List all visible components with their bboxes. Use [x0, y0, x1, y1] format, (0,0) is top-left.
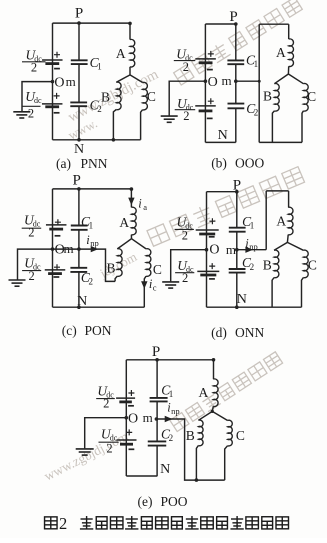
svg-text:np: np [171, 406, 180, 416]
svg-text:1: 1 [254, 59, 259, 69]
node m (c) [77, 247, 81, 251]
wire A to neutral (a) [129, 67, 131, 75]
svg-text:A: A [276, 213, 286, 228]
svg-text:N: N [77, 294, 87, 309]
inductor B (b) [274, 84, 279, 112]
wire capacitor column (e) [156, 360, 158, 476]
svg-text:1: 1 [250, 221, 255, 231]
node P-cap junction (d) [235, 190, 239, 194]
node m (e) [155, 417, 159, 421]
wire N rail (e) [126, 475, 157, 477]
wire load left edge (b) [258, 24, 260, 142]
watermark chinese lower right [169, 351, 283, 432]
node P-cap junction (e) [155, 358, 159, 362]
svg-text:P: P [233, 177, 241, 193]
node O (e) [125, 416, 129, 420]
svg-text:2: 2 [97, 104, 102, 114]
svg-text:dc: dc [34, 96, 42, 105]
inductor A (e) [213, 379, 218, 407]
wire C to N rail (c) [144, 276, 146, 307]
polarity + lower battery (e) [126, 429, 132, 435]
capacitor C2 (a) [70, 101, 87, 103]
wire B to N rail (a) [113, 110, 116, 140]
wire P rail (d) [207, 191, 237, 193]
node N-cap junction (d) [235, 305, 239, 309]
svg-text:2: 2 [254, 107, 258, 117]
wire B to bottom (e) [196, 446, 198, 481]
svg-text:B: B [186, 428, 195, 443]
wire neutral to C (c) [132, 239, 147, 249]
polarity + lower battery (a) [54, 93, 60, 99]
wire capacitor column (c) [78, 189, 80, 307]
inductor C (b) [303, 84, 308, 112]
wire P to phase A (e) [213, 360, 215, 379]
wire N rail (c) [53, 306, 145, 308]
node O (b) [204, 79, 208, 83]
polarity - lower battery (a) [54, 112, 60, 114]
inductor C (a) [143, 82, 148, 110]
svg-text:C: C [153, 262, 162, 277]
battery Udc/2 lower (b) [195, 105, 216, 107]
battery Udc/2 lower (e) [117, 439, 137, 441]
wire neutral to C (b) [288, 74, 303, 84]
svg-text:PNN: PNN [81, 156, 108, 171]
svg-text:A: A [119, 215, 129, 230]
wire C to bottom (e) [225, 446, 228, 480]
wire P rail (c) [53, 188, 132, 190]
current arrow i_np (c) [91, 247, 97, 252]
wire load top edge (b) [259, 23, 289, 25]
current arrow i_np (e) [165, 416, 171, 421]
svg-text:2: 2 [103, 396, 109, 410]
node m (b) [234, 79, 238, 83]
wire left rail (c) [52, 189, 54, 307]
svg-text:ONN: ONN [235, 325, 264, 340]
wire P rail (b) [205, 23, 235, 25]
wire P rail (a) [53, 22, 131, 24]
svg-text:1: 1 [89, 220, 94, 230]
svg-text:m: m [143, 410, 153, 425]
polarity - upper battery (c) [55, 235, 61, 237]
ground (a) [13, 111, 30, 113]
svg-text:N: N [237, 292, 247, 307]
wire top to phase A (b) [288, 24, 290, 39]
polarity - upper battery (d) [209, 236, 215, 238]
wire A to neutral (c) [130, 235, 132, 239]
wire O to ground (d) [171, 250, 207, 282]
svg-text:C: C [147, 89, 156, 104]
svg-text:POO: POO [161, 494, 188, 509]
watermark chinese middle [147, 166, 305, 247]
svg-text:O: O [208, 75, 218, 90]
svg-text:(a): (a) [56, 156, 71, 171]
polarity - upper battery (e) [128, 405, 134, 407]
wire N rail (d) [207, 306, 302, 308]
svg-text:P: P [73, 173, 81, 189]
battery Udc/2 lower (c) [45, 269, 66, 271]
wire neutral to C (e) [212, 411, 227, 420]
inductor A (b) [289, 39, 294, 67]
polarity - lower battery (e) [129, 448, 135, 450]
wire C to N rail (d) [302, 278, 304, 308]
wire capacitor column (d) [236, 192, 238, 308]
svg-text:B: B [263, 258, 272, 273]
polarity + upper battery (a) [54, 52, 60, 58]
svg-text:1: 1 [169, 389, 174, 399]
capacitor C1 (b) [227, 59, 244, 61]
inductor C (c) [146, 249, 151, 277]
wire B to bottom (b) [272, 111, 274, 142]
ground (e) [76, 448, 94, 450]
battery Udc/2 upper (b) [195, 58, 216, 60]
svg-text:2: 2 [28, 226, 34, 240]
battery Udc/2 upper (e) [116, 397, 135, 399]
svg-text:P: P [229, 9, 237, 25]
node m-load junction (b) [258, 80, 261, 83]
inductor B (d) [274, 250, 279, 278]
capacitor C2 (c) [70, 267, 87, 269]
wire O to ground (a) [22, 82, 53, 112]
node N-cap junction (a) [77, 138, 81, 142]
svg-text:a: a [143, 202, 147, 212]
svg-text:(d): (d) [211, 325, 227, 340]
current arrow i_c (c) [142, 282, 147, 288]
wire load top edge (d) [266, 190, 288, 192]
capacitor C2 (b) [228, 103, 245, 105]
svg-text:B: B [263, 89, 272, 104]
node N-B junction (a) [112, 138, 116, 142]
wire m to load (d) [237, 249, 266, 251]
wire capacitor column (a) [78, 23, 80, 140]
svg-text:m: m [66, 74, 76, 89]
inductor B (e) [198, 420, 203, 446]
polarity + upper battery (b) [208, 51, 214, 57]
wire left rail (d) [206, 192, 208, 308]
svg-text:(b): (b) [211, 156, 227, 171]
svg-text:A: A [276, 45, 286, 60]
capacitor C2 (e) [148, 440, 167, 442]
svg-text:2: 2 [182, 271, 188, 285]
wire neutral to B (e) [198, 411, 212, 420]
svg-text:N: N [74, 142, 84, 157]
svg-text:2: 2 [106, 441, 112, 455]
svg-text:P: P [152, 344, 160, 360]
node O (d) [205, 248, 209, 252]
svg-text:A: A [199, 385, 209, 400]
watermark www.zgbjdj.com lower left [42, 428, 131, 483]
battery Udc/2 upper (a) [42, 59, 63, 61]
svg-text:P: P [75, 6, 83, 22]
svg-text:PON: PON [85, 323, 112, 338]
wire P to phase A (c) [130, 189, 132, 207]
wire B to O-wire (c) [115, 276, 117, 281]
polarity + upper battery (e) [128, 390, 134, 396]
svg-text:2: 2 [182, 228, 188, 242]
svg-text:O: O [54, 75, 64, 90]
wire A to neutral (b) [287, 66, 289, 74]
node B-bottom junction (e) [195, 478, 199, 482]
node A-top (a) [128, 22, 132, 26]
wire capacitor column (b) [235, 24, 237, 142]
svg-text:i: i [138, 197, 142, 211]
svg-text:N: N [160, 462, 170, 477]
capacitor C1 (c) [71, 225, 88, 227]
wire N rail (b) [205, 141, 235, 143]
svg-text:O: O [209, 242, 219, 257]
battery Udc/2 upper (d) [196, 229, 219, 231]
polarity + lower battery (b) [208, 98, 214, 104]
watermark www fragment [66, 115, 100, 142]
node N-cap junction (c) [77, 305, 81, 309]
wire neutral to B (d) [274, 242, 287, 250]
wire O to ground (e) [85, 418, 127, 449]
svg-text:OOO: OOO [235, 156, 264, 171]
inductor B (c) [117, 249, 122, 277]
ground (b) [161, 115, 178, 117]
wire top to phase A (d) [288, 191, 290, 208]
node P-A corner (e) [212, 358, 216, 362]
svg-text:C: C [236, 428, 245, 443]
svg-text:N: N [218, 128, 228, 143]
polarity - lower battery (c) [54, 276, 60, 278]
node m (d) [235, 248, 239, 252]
node P-cap junction (c) [77, 187, 81, 191]
svg-text:C: C [308, 258, 317, 273]
wire neutral to B (a) [116, 75, 130, 82]
wire load left edge (d) [265, 191, 267, 250]
svg-text:m: m [221, 73, 231, 88]
battery Udc/2 lower (a) [42, 103, 63, 105]
node O (c) [51, 247, 55, 251]
polarity + lower battery (c) [54, 264, 60, 270]
ground (d) [162, 281, 179, 283]
wire neutral to C (a) [130, 75, 143, 83]
wire A to neutral (e) [212, 406, 213, 411]
svg-text:2: 2 [183, 109, 189, 123]
svg-text:B: B [101, 89, 110, 104]
svg-text:2: 2 [89, 277, 94, 287]
capacitor C1 (d) [229, 227, 246, 229]
battery Udc/2 upper (c) [46, 224, 66, 226]
inductor B (a) [116, 82, 121, 110]
svg-text:2: 2 [183, 60, 189, 74]
svg-text:np: np [249, 242, 258, 252]
polarity + upper battery (d) [209, 218, 215, 224]
svg-text:2: 2 [28, 269, 34, 283]
capacitor C2 (d) [229, 268, 246, 270]
polarity + upper battery (c) [55, 219, 61, 225]
svg-text:2: 2 [169, 433, 174, 443]
inductor C (d) [303, 250, 308, 278]
svg-text:np: np [90, 238, 99, 248]
svg-text:1: 1 [97, 61, 102, 71]
wire left rail (e) [125, 360, 127, 476]
svg-text:m: m [226, 242, 236, 257]
node neutral (e) [211, 410, 214, 413]
wire neutral to C (d) [287, 242, 303, 250]
wire C to bottom (b) [302, 111, 303, 142]
inductor A (c) [131, 207, 136, 235]
watermark chinese upper right [173, 0, 303, 86]
polarity + lower battery (d) [209, 263, 215, 269]
battery Udc/2 lower (d) [197, 270, 219, 272]
wire P to phase A (a) [129, 23, 131, 39]
svg-text:O: O [128, 411, 138, 426]
wire load bottom edge (b) [259, 141, 302, 143]
node P-cap junction (b) [234, 22, 238, 26]
svg-text:2: 2 [250, 262, 255, 272]
svg-text:(c): (c) [62, 323, 77, 338]
current arrow i_a (c) [129, 198, 134, 204]
current arrow i_np (d) [246, 247, 252, 252]
node P-A corner (c) [130, 187, 134, 191]
node P (a) [77, 21, 81, 25]
svg-text:2: 2 [59, 514, 67, 533]
wire left rail (b) [204, 24, 206, 142]
svg-text:2: 2 [31, 60, 37, 74]
wire O to ground (b) [169, 81, 205, 116]
capacitor C1 (e) [150, 397, 168, 399]
wire N rail (a) [53, 139, 141, 141]
wire left rail (a) [52, 23, 54, 140]
polarity - lower battery (b) [207, 117, 213, 119]
wire O-m to phase B (c) [53, 249, 116, 281]
wire neutral to B (b) [274, 74, 288, 84]
svg-text:c: c [153, 282, 157, 292]
ground (c) [9, 279, 26, 281]
inductor A (d) [288, 207, 293, 235]
wire O to ground (c) [18, 249, 53, 280]
node O (a) [51, 80, 55, 84]
capacitor C1 (a) [71, 59, 88, 61]
watermark jdj.com middle [96, 249, 139, 281]
wire B to N rail (d) [272, 278, 274, 308]
polarity - upper battery (b) [207, 69, 213, 71]
svg-text:C: C [307, 89, 316, 104]
wire m to load (b) [236, 80, 259, 82]
figure caption: 图2 基本矢量对应的实际拓扑和电流回路 [45, 514, 289, 533]
svg-text:B: B [106, 260, 115, 275]
svg-text:A: A [116, 46, 126, 61]
inductor C (e) [228, 420, 233, 446]
wire P rail (e) [126, 359, 213, 361]
wire neutral to B (c) [117, 239, 131, 249]
svg-text:(e): (e) [138, 494, 153, 509]
watermark www.zgbjdj.com upper left [66, 66, 162, 125]
polarity - upper battery (a) [54, 68, 60, 70]
inductor A (a) [130, 39, 135, 67]
wire m to load bottom (e) [156, 419, 224, 480]
polarity - lower battery (d) [209, 278, 215, 280]
wire A to neutral (d) [286, 235, 289, 243]
svg-text:2: 2 [28, 106, 34, 120]
wire C to N rail (a) [141, 110, 143, 140]
